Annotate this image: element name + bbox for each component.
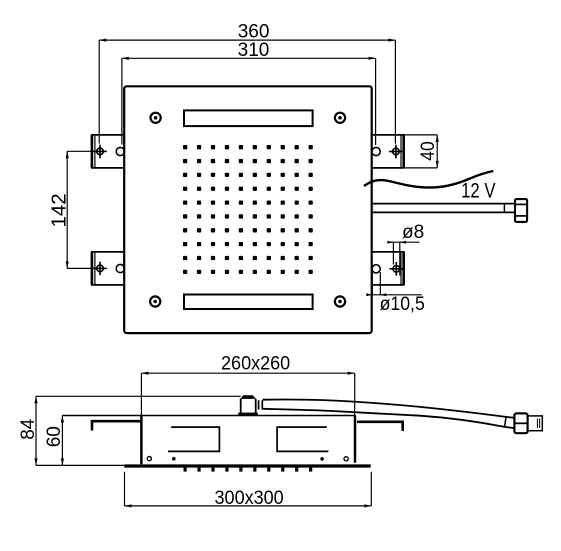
LED window right (section) bbox=[277, 427, 328, 451]
dimension o10,5 leader and extension lines bbox=[372, 272, 422, 295]
right lower bracket hole bbox=[372, 265, 380, 273]
dimension 310 line bbox=[122, 58, 376, 145]
elbow fitting block bbox=[238, 395, 257, 415]
dimension 260x260 arrows bbox=[141, 372, 354, 375]
dimension 142 arrows bbox=[66, 151, 69, 268]
svg-text:142: 142 bbox=[48, 193, 71, 227]
right lower bracket screw (cross) bbox=[390, 262, 404, 276]
svg-text:60: 60 bbox=[44, 426, 65, 447]
LED window left (section) bbox=[168, 427, 219, 451]
frame top line (side view) bbox=[36, 395, 241, 397]
body screw hole right outer bbox=[344, 457, 348, 461]
supply cable wavy line bbox=[364, 171, 493, 188]
svg-text:40: 40 bbox=[416, 141, 438, 161]
svg-text:84: 84 bbox=[18, 418, 39, 440]
left lower bracket screw (cross) bbox=[93, 262, 107, 276]
body left wall bbox=[140, 416, 143, 465]
dimension 40 arrows bbox=[436, 135, 439, 168]
left hook bracket (side view) bbox=[92, 421, 141, 430]
dimension 260x260 lines bbox=[141, 373, 354, 415]
dimension 300x300 lines bbox=[125, 472, 372, 506]
right upper bracket screw (cross) bbox=[389, 145, 403, 159]
svg-text:310: 310 bbox=[238, 40, 270, 61]
dimension o10,5 arrows bbox=[366, 293, 386, 296]
curved hose (side view) bbox=[263, 400, 515, 429]
corner screw top-right bbox=[335, 113, 345, 123]
svg-text:ø8: ø8 bbox=[402, 222, 424, 243]
left lower bracket hole bbox=[116, 264, 124, 272]
corner screw bottom-right bbox=[335, 296, 345, 306]
body screw right inner bbox=[320, 457, 324, 461]
dimension 84 line bbox=[35, 396, 37, 465]
face plate bottom (thick) bbox=[124, 464, 370, 467]
dimension 300x300 arrows bbox=[125, 504, 372, 507]
left lower mounting bracket bbox=[92, 252, 124, 285]
body top edge bbox=[62, 415, 355, 417]
right upper bracket hole bbox=[372, 147, 380, 155]
nozzle dot grid 10x10 bbox=[183, 145, 313, 274]
dimension 60 arrows bbox=[61, 416, 64, 466]
svg-text:12 V: 12 V bbox=[461, 180, 496, 203]
svg-text:260x260: 260x260 bbox=[221, 352, 290, 374]
body screw hole left outer bbox=[147, 457, 151, 461]
dimension 142 line bbox=[67, 151, 93, 268]
body screw left inner bbox=[172, 457, 176, 461]
body right wall bbox=[354, 416, 357, 463]
dimension 360 arrows bbox=[99, 39, 395, 42]
dimension o8 lines bbox=[390, 242, 419, 275]
top slot bbox=[184, 110, 313, 126]
svg-text:ø10,5: ø10,5 bbox=[380, 292, 425, 314]
dimension 360 line bbox=[99, 40, 395, 144]
dimension 60 line bbox=[61, 416, 63, 466]
corner screw top-left bbox=[151, 113, 161, 123]
dimension 310 arrows bbox=[122, 57, 376, 60]
left upper bracket screw (cross) bbox=[93, 145, 107, 159]
right lower mounting bracket bbox=[372, 252, 404, 285]
threaded stub bbox=[528, 416, 543, 431]
left upper mounting bracket bbox=[92, 135, 124, 168]
bottom slot bbox=[184, 295, 313, 310]
right hook bracket (side view) bbox=[357, 422, 403, 431]
straight hose (top view) bbox=[373, 204, 515, 213]
nozzle row (side view) bbox=[184, 468, 313, 472]
dimension o8 arrows bbox=[387, 241, 405, 244]
hose nut (top view) bbox=[515, 199, 527, 222]
svg-text:300x300: 300x300 bbox=[214, 486, 283, 508]
corner screw bottom-left bbox=[150, 296, 160, 306]
dimension 84 arrows bbox=[34, 396, 37, 465]
right upper mounting bracket bbox=[372, 135, 404, 168]
left upper bracket hole bbox=[116, 147, 124, 155]
elbow collar bbox=[259, 400, 263, 409]
main square plate (top view 300x300) bbox=[124, 86, 372, 333]
hose nut (side view) bbox=[514, 413, 527, 433]
ceiling line left of plate bbox=[36, 464, 124, 466]
dimension 40 lines bbox=[404, 135, 438, 168]
